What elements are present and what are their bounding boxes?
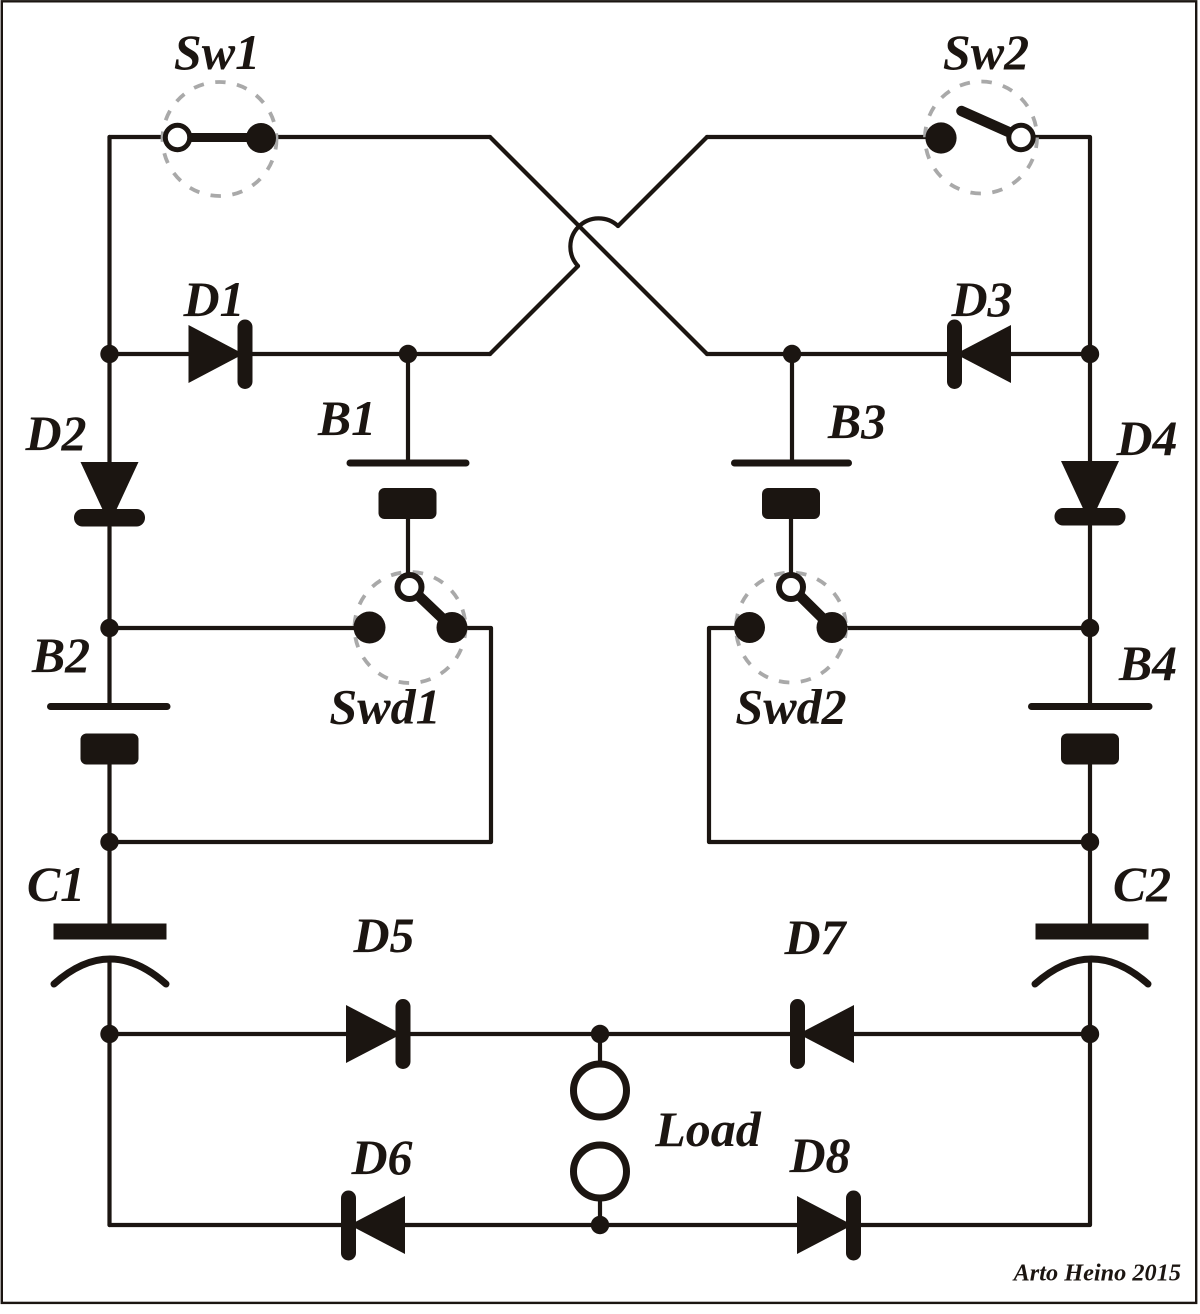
wire top-left horizontal (Sw1 row) [110, 135, 491, 139]
wire hop (crossover bridge) [570, 218, 618, 266]
diode D8 [797, 1191, 861, 1261]
wire Load top node to D7 [600, 1032, 790, 1036]
switch Swd1 right contact [437, 612, 468, 643]
wire D3 anode from right rail [1011, 352, 1090, 356]
wire diagonal A (top-left to bottom-right) [490, 137, 707, 354]
wire B2 bottom to return node [107, 764, 111, 842]
diode D5 [346, 999, 411, 1069]
switch Swd1 left contact [354, 612, 386, 644]
junction node C1-D5 [100, 1025, 118, 1043]
wire D5 anode [110, 1032, 347, 1036]
switch Swd2 dashed enclosure [736, 573, 846, 683]
wire Swd1 right contact to return loop [110, 628, 492, 842]
wire right rail D4 anode [1088, 354, 1092, 461]
svg-text:D5: D5 [352, 907, 414, 963]
wire right horizontal to node B3 [707, 352, 792, 356]
wire D5 cathode to Load top node [410, 1032, 600, 1036]
svg-text:D3: D3 [950, 271, 1012, 327]
svg-text:Arto Heino 2015: Arto Heino 2015 [1012, 1260, 1181, 1287]
switch Swd2 pivot terminal [779, 575, 803, 599]
svg-text:B2: B2 [31, 627, 90, 683]
wire D1 cathode to node B1 [252, 352, 408, 356]
switch Swd1 dashed enclosure [355, 572, 466, 683]
svg-text:B1: B1 [317, 390, 376, 446]
wire Load bottom node to D8 [600, 1223, 797, 1227]
wire C2 top [1088, 842, 1092, 924]
wire B4 top [1088, 628, 1092, 703]
wire D8 to bottom-right corner [861, 1034, 1090, 1225]
wire bottom-left horizontal from node B1 [408, 352, 490, 356]
switch Sw1 open terminal [165, 125, 189, 149]
wire Swd2 right contact to right rail [832, 626, 1090, 630]
svg-text:C2: C2 [1113, 856, 1171, 912]
wire D6 to Load bottom node [405, 1223, 600, 1227]
junction node B1 [399, 345, 417, 363]
wire diagonal B upper segment [618, 137, 707, 226]
svg-text:D4: D4 [1115, 410, 1177, 466]
wire D3 cathode to node B3 [792, 352, 948, 356]
switch Sw1 lever (closed) [178, 133, 262, 142]
capacitor C2 flat plate [1036, 924, 1149, 940]
junction node left Swd1 row [100, 619, 118, 637]
diode D4 [1055, 461, 1126, 526]
wire B2 top [107, 628, 111, 703]
wire left rail D2 cathode to Swd1 row [107, 527, 111, 628]
wire Load bottom lamp to node [598, 1198, 602, 1225]
wire bottom-left to D6 [110, 1223, 342, 1227]
junction node C2-D7 [1081, 1025, 1099, 1043]
diode D7 [790, 999, 854, 1069]
svg-text:Sw2: Sw2 [943, 24, 1029, 80]
wire left rail D2 anode [107, 354, 111, 463]
switch Swd2 lever [791, 587, 832, 628]
diode D3 [947, 320, 1011, 390]
battery B3 long plate [735, 460, 849, 467]
wire right rail D4 cathode to Swd2 row [1088, 526, 1092, 628]
battery B4 long plate [1032, 703, 1150, 710]
wire C2 arc to D7 row [1088, 958, 1092, 1034]
battery B2 short thick plate [81, 734, 139, 765]
wire C1 top [107, 842, 111, 924]
wire B4 bottom to return node [1088, 764, 1092, 842]
switch Sw2 dashed enclosure [925, 82, 1037, 194]
wire D7 to right rail [854, 1032, 1090, 1036]
svg-text:D2: D2 [24, 405, 86, 461]
wire diagonal B lower segment [490, 266, 578, 354]
svg-text:Swd1: Swd1 [329, 679, 440, 735]
junction node D3-D4 [1081, 345, 1099, 363]
wire from Sw2 to right rail corner [1021, 137, 1090, 354]
battery B4 short thick plate [1061, 734, 1119, 765]
junction node Load top [591, 1025, 609, 1043]
switch Swd2 right contact [817, 612, 848, 643]
diode D2 [74, 462, 145, 527]
wire Swd2 left contact to return loop [709, 628, 1090, 842]
switch Swd2 left contact [734, 612, 765, 643]
svg-text:Sw1: Sw1 [174, 24, 260, 80]
junction node D1-D2 [100, 345, 118, 363]
switch Sw1 dashed enclosure [163, 82, 277, 196]
wire node D1 anode [110, 352, 189, 356]
switch Sw2 fixed terminal [925, 122, 956, 153]
load lamp top [574, 1064, 627, 1117]
switch Sw1 closed terminal [246, 123, 276, 153]
wire left rail bottom [107, 1034, 111, 1225]
load lamp bottom [574, 1145, 627, 1198]
capacitor C1 curved plate [54, 959, 166, 984]
wire node B1 down to battery plate [406, 354, 410, 460]
wire Swd1 left contact to left rail [110, 626, 370, 630]
wire Load top node to lamp [598, 1034, 602, 1064]
switch Swd1 lever [410, 587, 453, 628]
svg-text:D1: D1 [182, 271, 244, 327]
wire node B3 down to battery plate [790, 354, 794, 460]
wire C1 arc to D5 row [107, 958, 111, 1034]
battery B3 short thick plate [762, 488, 820, 519]
junction node B4-C2 [1081, 833, 1099, 851]
switch Sw2 open terminal [1009, 125, 1033, 149]
svg-text:B4: B4 [1118, 635, 1177, 691]
svg-text:D7: D7 [783, 909, 847, 965]
junction node Load bottom [591, 1216, 609, 1234]
battery B2 long plate [51, 703, 168, 710]
junction node B3 [783, 345, 801, 363]
wire B1 bottom plate to Swd1 pivot [406, 519, 410, 586]
svg-text:B3: B3 [827, 393, 886, 449]
svg-text:Load: Load [654, 1101, 762, 1157]
svg-text:D8: D8 [788, 1127, 850, 1183]
wire left rail top [107, 137, 111, 354]
capacitor C1 flat plate [54, 924, 167, 940]
switch Swd1 pivot terminal [398, 575, 422, 599]
wire top-right horizontal into Sw2 [707, 135, 941, 139]
switch Sw2 lever (open) [962, 111, 1022, 138]
junction node B2-C1 [100, 833, 118, 851]
battery B1 long plate [350, 460, 466, 467]
capacitor C2 curved plate [1035, 959, 1148, 984]
svg-text:C1: C1 [27, 856, 85, 912]
battery B1 short thick plate [379, 488, 437, 519]
junction node right Swd2 row [1081, 619, 1099, 637]
svg-text:D6: D6 [350, 1129, 412, 1185]
wire B3 bottom plate to Swd2 pivot [789, 519, 793, 586]
svg-text:Swd2: Swd2 [735, 679, 846, 735]
diode D6 [341, 1191, 405, 1261]
diode D1 [189, 320, 253, 390]
